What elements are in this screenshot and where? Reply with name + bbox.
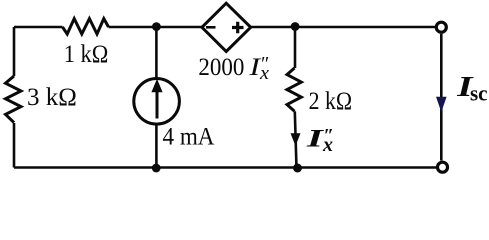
wire 2 kOhm branch upper	[294, 27, 297, 69]
svg-text:2 kΩ: 2 kΩ	[309, 88, 353, 115]
wire short circuit right branch	[440, 34, 443, 161]
terminal bottom open circle	[438, 162, 448, 172]
current source arrow	[156, 89, 159, 119]
svg-text:x: x	[322, 134, 333, 156]
node junction dot bottom right	[293, 164, 302, 173]
wire 2 kOhm branch lower	[295, 111, 297, 168]
wire current source branch lower	[155, 125, 158, 169]
wire left branch	[13, 27, 16, 168]
current arrow Ix'' on 2 kOhm branch	[291, 133, 301, 146]
wire top rail middle segment	[109, 26, 204, 29]
svg-text:3 kΩ: 3 kΩ	[27, 84, 77, 111]
svg-text:I: I	[305, 123, 324, 152]
wire top rail left segment	[14, 26, 63, 29]
minus sign inside diamond	[206, 26, 216, 29]
wire current source branch upper	[155, 27, 158, 78]
current source I1 circle 4 mA	[134, 79, 180, 125]
svg-text:4 mA: 4 mA	[163, 123, 215, 150]
plus sign inside diamond	[232, 22, 244, 34]
wire top rail right segment	[251, 26, 435, 29]
terminal top open circle	[436, 22, 446, 32]
svg-text:1 kΩ: 1 kΩ	[64, 41, 109, 68]
resistor 1 kOhm zigzag	[63, 19, 109, 34]
svg-text:sc: sc	[470, 81, 488, 106]
resistor 2 kOhm zigzag	[287, 68, 301, 111]
svg-text:x: x	[259, 63, 270, 84]
dependent source U1 diamond 2000 Ix''	[202, 3, 251, 51]
current arrow Isc	[436, 97, 447, 112]
resistor 3 kOhm zigzag	[6, 76, 22, 123]
node junction dot top right	[291, 22, 300, 31]
node junction dot top middle	[152, 22, 161, 31]
svg-text:2000: 2000	[198, 54, 244, 81]
wire bottom rail	[14, 166, 436, 169]
node junction dot bottom middle	[152, 164, 161, 173]
